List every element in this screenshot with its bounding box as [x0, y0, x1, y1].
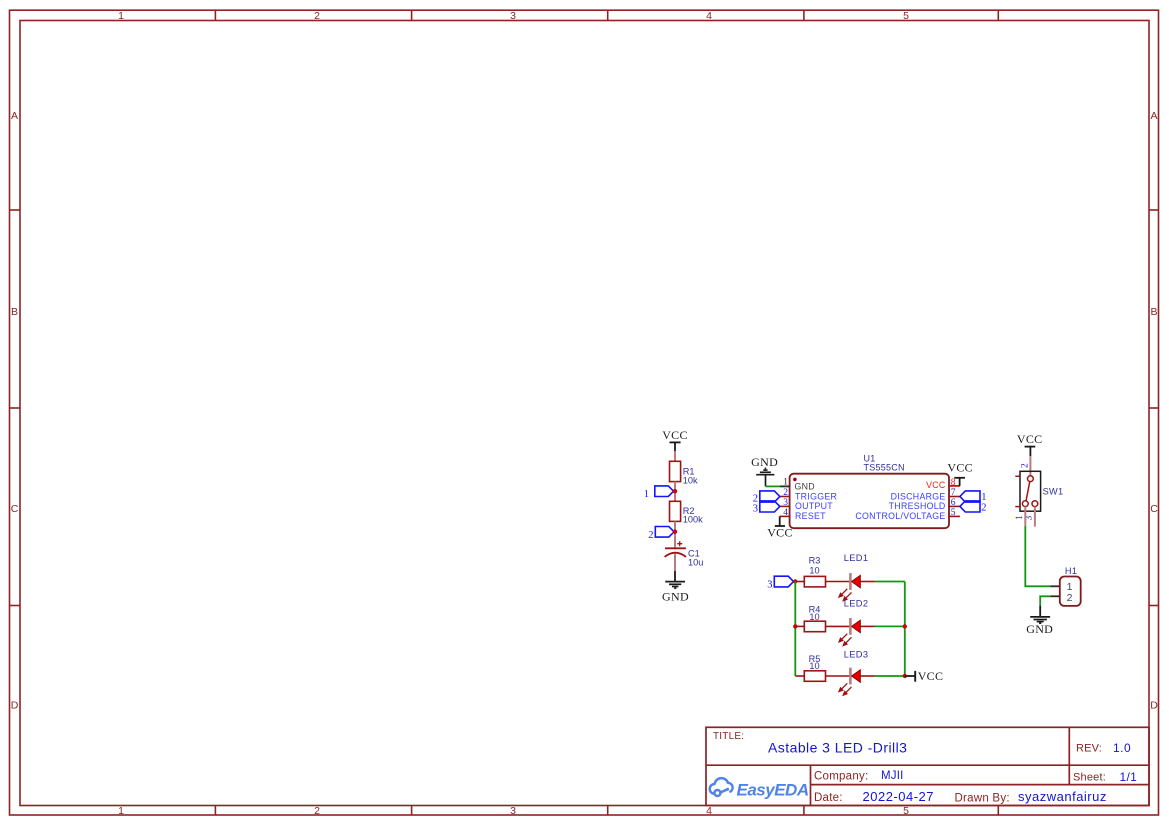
svg-text:1: 1 — [118, 805, 124, 817]
svg-text:2: 2 — [314, 10, 320, 22]
svg-text:4: 4 — [783, 508, 788, 518]
svg-text:GND: GND — [1026, 622, 1053, 636]
wire LED1 to right bus — [875, 581, 905, 583]
pin 2 of H1 — [1050, 595, 1060, 597]
net flag 2 — [648, 527, 674, 541]
power flag VCC (LED bus) — [905, 669, 943, 683]
net flag 2 (U1 threshold) — [960, 501, 987, 514]
svg-text:3: 3 — [510, 805, 516, 817]
pin 6 of U1 — [949, 505, 960, 507]
diode LED3 — [839, 668, 860, 696]
svg-text:THRESHOLD: THRESHOLD — [889, 501, 946, 511]
svg-text:syazwanfairuz: syazwanfairuz — [1018, 789, 1107, 804]
svg-text:TRIGGER: TRIGGER — [795, 491, 837, 501]
TITLEBLOCK — [706, 727, 1149, 805]
svg-text:B: B — [1150, 306, 1157, 318]
wire left bus (node 3) — [794, 582, 796, 677]
svg-text:VCC: VCC — [1017, 432, 1043, 446]
svg-text:C: C — [11, 503, 19, 515]
svg-text:REV:: REV: — [1076, 743, 1102, 755]
svg-text:VCC: VCC — [767, 526, 793, 540]
svg-text:1: 1 — [644, 489, 649, 500]
wire R5 to LED3 — [826, 675, 850, 677]
wire GND to U1 pin 1 — [766, 485, 781, 487]
svg-text:LED1: LED1 — [844, 553, 869, 563]
pin 1 of H1 — [1050, 585, 1060, 587]
op-amp/timer U1 TS555CN body — [790, 474, 949, 529]
junction node row1 left — [793, 579, 797, 583]
svg-text:CONTROL/VOLTAGE: CONTROL/VOLTAGE — [855, 511, 945, 521]
diode LED1 — [839, 573, 860, 601]
svg-text:1: 1 — [1015, 515, 1025, 520]
svg-text:2: 2 — [1021, 463, 1031, 468]
wire R3 to LED1 — [826, 581, 850, 583]
wire C1 to GND — [674, 554, 676, 582]
svg-text:2022-04-27: 2022-04-27 — [863, 789, 935, 804]
wire node to R3 — [795, 581, 804, 583]
wire R1 to node 1 — [674, 482, 676, 502]
svg-text:10u: 10u — [688, 558, 703, 568]
svg-text:Astable 3 LED -Drill3: Astable 3 LED -Drill3 — [768, 740, 907, 756]
pin 5 of U1 — [949, 515, 960, 517]
svg-text:3: 3 — [767, 580, 772, 591]
svg-text:10: 10 — [809, 612, 819, 622]
wire R4 to LED2 — [826, 625, 850, 627]
svg-text:MJII: MJII — [881, 770, 904, 782]
svg-text:2: 2 — [981, 502, 986, 513]
svg-text:1: 1 — [118, 10, 124, 22]
svg-text:Sheet:: Sheet: — [1073, 772, 1106, 784]
svg-text:100k: 100k — [683, 515, 703, 525]
svg-text:1/1: 1/1 — [1120, 770, 1138, 784]
svg-text:SW1: SW1 — [1043, 487, 1064, 497]
svg-text:10: 10 — [809, 566, 819, 576]
net flag 1 — [644, 486, 674, 500]
pin 3 of U1 — [780, 505, 790, 507]
capacitor C1 — [665, 541, 686, 557]
pin 1 stub (SW1) — [1024, 507, 1026, 526]
junction node row2 left — [793, 624, 797, 628]
svg-text:TS555CN: TS555CN — [864, 462, 905, 472]
wire LED2 anode — [860, 625, 874, 627]
switch SW1 — [1015, 471, 1040, 511]
svg-text:LED2: LED2 — [844, 599, 869, 609]
wire R2 to node 2 — [674, 521, 676, 548]
svg-text:A: A — [1150, 110, 1157, 122]
svg-text:5: 5 — [903, 805, 909, 817]
svg-text:Date:: Date: — [814, 792, 843, 804]
pin 4 of U1 — [780, 515, 790, 517]
svg-text:2: 2 — [648, 530, 653, 541]
svg-text:D: D — [11, 700, 19, 712]
svg-text:GND: GND — [751, 455, 778, 469]
svg-text:2: 2 — [783, 488, 788, 498]
power flag VCC (U1 pin8) — [947, 460, 973, 486]
power flag VCC (switch) — [1017, 432, 1043, 456]
svg-text:7: 7 — [951, 488, 956, 498]
net flag 2 (U1 trigger) — [753, 491, 780, 505]
svg-text:EasyEDA: EasyEDA — [737, 781, 809, 800]
svg-text:5: 5 — [903, 10, 909, 22]
pin 8 of U1 — [949, 485, 960, 487]
svg-text:3: 3 — [753, 504, 758, 515]
power flag VCC (left RC chain) — [662, 428, 688, 451]
pin 7 of U1 — [949, 496, 960, 498]
ground (H1) — [1030, 617, 1050, 623]
svg-text:VCC: VCC — [926, 480, 946, 490]
svg-text:1: 1 — [783, 478, 788, 488]
svg-text:D: D — [1150, 700, 1158, 712]
resistor R4 — [804, 621, 825, 632]
wire LED1 anode — [860, 581, 874, 583]
svg-text:3: 3 — [510, 10, 516, 22]
pin 1 of U1 — [780, 485, 790, 487]
wire H1 pin2 to GND — [1040, 596, 1050, 605]
wire node to R5 — [795, 675, 804, 677]
svg-text:3: 3 — [783, 498, 788, 508]
wire stem to ground — [1039, 606, 1041, 617]
header H1 — [1060, 577, 1081, 606]
net flag 1 (U1 discharge) — [960, 491, 987, 503]
junction node row3 right — [903, 674, 907, 678]
svg-text:4: 4 — [706, 10, 712, 22]
pin 2 of U1 — [780, 496, 790, 498]
svg-text:VCC: VCC — [918, 669, 944, 683]
svg-text:DISCHARGE: DISCHARGE — [891, 491, 946, 501]
power flag VCC (U1 pin4 reset) — [767, 516, 793, 539]
svg-text:8: 8 — [951, 478, 956, 488]
svg-text:Company:: Company: — [814, 771, 868, 783]
svg-text:R3: R3 — [809, 555, 821, 565]
net flag 3 (LED drive) — [767, 576, 793, 590]
wire node to R4 — [795, 625, 804, 627]
resistor R5 — [804, 671, 825, 682]
svg-text:LED3: LED3 — [844, 649, 869, 659]
pin 3 stub (SW1) — [1034, 507, 1036, 527]
ground (RC chain) — [665, 582, 685, 589]
junction node 2 — [673, 530, 677, 534]
svg-text:A: A — [11, 110, 18, 122]
resistor R3 — [804, 576, 825, 587]
wire SW1 to H1 — [1025, 526, 1050, 587]
junction node 1 — [673, 489, 677, 493]
wire VCC to R1 — [674, 451, 676, 461]
resistor R1 — [670, 461, 681, 481]
svg-text:6: 6 — [951, 498, 956, 508]
svg-text:Drawn By:: Drawn By: — [955, 793, 1010, 805]
svg-text:VCC: VCC — [662, 428, 688, 442]
svg-text:10: 10 — [809, 661, 819, 671]
wire LED3 to right bus — [875, 675, 905, 677]
wire LED2 to right bus — [875, 625, 905, 627]
svg-text:B: B — [11, 306, 18, 318]
svg-text:4: 4 — [706, 805, 712, 817]
ground (U1 pin1, inverted) — [751, 455, 778, 486]
svg-text:2: 2 — [314, 805, 320, 817]
resistor R2 — [670, 501, 681, 521]
svg-text:VCC: VCC — [947, 460, 973, 474]
svg-text:C: C — [1150, 503, 1158, 515]
svg-text:1.0: 1.0 — [1113, 741, 1131, 755]
svg-text:GND: GND — [795, 482, 815, 492]
svg-text:10k: 10k — [683, 476, 698, 486]
svg-text:OUTPUT: OUTPUT — [795, 501, 833, 511]
junction node row2 right — [903, 624, 907, 628]
pin1 marker dot U1 — [793, 478, 797, 482]
wire LED3 anode — [860, 675, 874, 677]
svg-text:H1: H1 — [1065, 566, 1077, 576]
wire VCC to SW1 pin 2 — [1029, 456, 1031, 476]
svg-text:2: 2 — [1067, 592, 1073, 604]
diode LED2 — [839, 618, 860, 646]
svg-text:RESET: RESET — [795, 511, 826, 521]
wire right bus (VCC) — [904, 582, 906, 677]
svg-text:GND: GND — [662, 590, 689, 604]
svg-text:TITLE:: TITLE: — [713, 731, 744, 742]
svg-text:5: 5 — [951, 508, 956, 518]
net flag 3 (U1 output) — [753, 501, 780, 515]
logo EasyEDA — [710, 778, 809, 800]
